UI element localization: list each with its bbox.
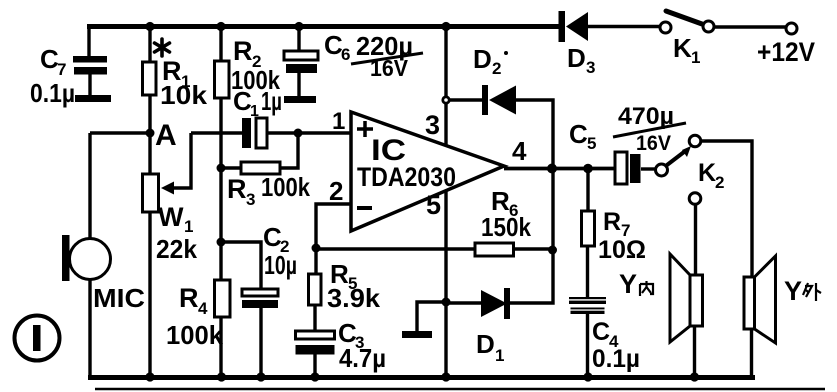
svg-text:K: K	[673, 33, 692, 63]
junction dot D1 anode node	[442, 298, 451, 307]
wire C7 top lead	[87, 27, 90, 58]
junction dot R1 at top rail	[145, 22, 154, 31]
svg-text:R: R	[603, 208, 621, 236]
svg-text:MIC: MIC	[93, 283, 145, 313]
op-amp IC TDA2030	[351, 112, 504, 231]
wire D2 anode to output column	[516, 100, 553, 168]
svg-text:2: 2	[715, 173, 724, 192]
wire K2 lower throw to internal speaker	[694, 204, 697, 275]
capacitor C4	[569, 297, 640, 373]
svg-text:16V: 16V	[370, 55, 409, 81]
junction dot C4 at rail	[583, 372, 592, 381]
wire pin 5 to ground rail	[444, 190, 447, 377]
junction dot R2 at top rail	[216, 22, 225, 31]
wire R1 top lead	[148, 27, 151, 63]
wire left column down to MIC	[88, 133, 91, 239]
junction dot feedback node	[312, 244, 321, 253]
junction dot C2 branch on bias column	[217, 238, 226, 247]
pin 4 label	[512, 136, 527, 166]
svg-text:0.1µ: 0.1µ	[592, 345, 640, 373]
junction dot output/D2 column	[547, 164, 557, 174]
svg-text:W: W	[158, 202, 184, 232]
svg-text:4: 4	[512, 136, 527, 166]
svg-text:3: 3	[425, 110, 440, 140]
capacitor C3	[296, 318, 387, 373]
microphone MIC	[62, 235, 145, 313]
resistor R3	[227, 162, 310, 209]
diode D3 in supply rail	[559, 11, 596, 77]
wire C4 bottom to ground rail	[586, 314, 589, 377]
svg-text:R: R	[233, 36, 253, 66]
wire C3 bottom to ground rail	[313, 354, 316, 377]
svg-text:6: 6	[341, 45, 350, 64]
junction dot pin5 at rail	[441, 372, 450, 381]
junction dot R4 at rail	[217, 372, 226, 381]
switch K1	[660, 11, 714, 67]
svg-text:A: A	[155, 119, 177, 152]
svg-text:5: 5	[587, 134, 596, 153]
junction dot C2 at rail	[256, 372, 265, 381]
svg-text:10Ω: 10Ω	[598, 236, 646, 264]
potentiometer W1	[143, 174, 198, 264]
wire K1 to +12V terminal	[714, 25, 786, 28]
wire C7 mid lead	[88, 73, 91, 96]
wire D1 node to ground symbol	[417, 302, 446, 331]
svg-text:2: 2	[492, 59, 501, 78]
wire R6 right to output column	[513, 247, 553, 250]
wire D1 cathode to output column	[510, 250, 553, 303]
svg-text:2: 2	[329, 176, 343, 206]
figure number 1 circled	[15, 316, 60, 361]
wire Y internal bottom to rail	[693, 326, 696, 377]
switch K2	[656, 135, 725, 204]
wire R1 bottom to node A	[148, 95, 151, 174]
svg-text:10µ: 10µ	[264, 250, 297, 280]
wire D1 anode lead	[446, 301, 481, 304]
capacitor C2	[242, 222, 297, 308]
asterisk mark above R1	[155, 39, 170, 56]
svg-text:Y: Y	[619, 269, 637, 299]
wire R7 top lead	[586, 169, 589, 211]
wire MIC bottom to ground rail	[88, 279, 91, 377]
wire W1 wiper arm	[161, 133, 191, 195]
junction dot R6 right at output column	[548, 246, 557, 255]
svg-text:5: 5	[426, 190, 441, 220]
wire D2 cathode lead	[449, 98, 483, 101]
svg-text:3: 3	[586, 58, 595, 77]
resistor R4	[166, 280, 230, 350]
wire Y external bottom to rail	[750, 329, 753, 378]
svg-text:R: R	[179, 283, 199, 313]
capacitor C5	[569, 103, 686, 184]
junction dot W1 bottom at rail	[145, 372, 154, 381]
svg-text:150k: 150k	[481, 212, 531, 242]
node A	[146, 119, 177, 152]
capacitor C7	[30, 44, 111, 108]
svg-text:22k: 22k	[156, 234, 198, 264]
pin 5 label	[426, 190, 441, 220]
pin 2 label	[329, 176, 343, 206]
wire feedback node to R6 left	[316, 247, 475, 250]
diode D2	[473, 44, 516, 115]
junction dot C1/R3/pin1	[294, 129, 303, 138]
junction dot C6 at top rail	[294, 22, 303, 31]
wire C1 right plate to pin1 node	[267, 131, 351, 134]
junction dot pin3 at top rail	[441, 22, 450, 31]
wire feedback node to R5 top	[314, 248, 317, 275]
wire rail from D3 to K1	[588, 25, 660, 28]
svg-text:0.1µ: 0.1µ	[30, 78, 75, 108]
svg-text:100k: 100k	[261, 172, 310, 202]
wire R2 top lead	[219, 27, 222, 62]
speaker Y internal	[619, 254, 703, 342]
wire R4 bottom to ground rail	[219, 317, 222, 377]
wire R2 bottom through bias column	[219, 98, 222, 280]
svg-text:1: 1	[691, 48, 700, 67]
svg-text:C: C	[592, 318, 610, 346]
wire C2 bottom to ground rail	[259, 308, 262, 377]
resistor R5	[309, 259, 381, 313]
wire wiper node to C1 left plate	[191, 131, 242, 134]
svg-text:3: 3	[246, 190, 255, 209]
svg-text:1: 1	[332, 108, 345, 135]
svg-text:Y: Y	[784, 276, 802, 306]
wire node A to left column	[90, 131, 150, 134]
wire R3 left lead to bias column	[221, 166, 241, 169]
wire op-amp output row	[504, 167, 616, 171]
svg-text:1µ: 1µ	[261, 86, 282, 116]
wire +V top rail	[87, 24, 559, 29]
node ring pin3/D2 branch	[443, 97, 449, 103]
wire output column D2 junction to R6 junction	[551, 168, 554, 250]
capacitor C1	[233, 86, 282, 148]
diode D1	[476, 288, 510, 365]
terminal +12V	[757, 23, 815, 67]
svg-text:D: D	[476, 329, 495, 359]
svg-text:100k: 100k	[166, 320, 224, 350]
svg-text:3.9k: 3.9k	[327, 283, 381, 313]
junction dot Y internal at rail	[690, 372, 699, 381]
resistor R6	[475, 186, 531, 256]
svg-text:10k: 10k	[160, 80, 208, 110]
svg-text:D: D	[567, 43, 586, 73]
svg-text:4.7µ: 4.7µ	[339, 343, 386, 373]
svg-text:+12V: +12V	[757, 37, 815, 67]
wire K2 upper throw to external speaker column	[701, 141, 752, 277]
svg-text:1: 1	[250, 103, 259, 120]
resistor R1	[143, 56, 208, 110]
wire bottom ground rail	[88, 375, 755, 380]
wire bias column to C2 top	[221, 242, 261, 290]
svg-text:C: C	[569, 119, 588, 149]
wire pin 2 to feedback node	[316, 204, 351, 248]
page rule line at bottom	[95, 388, 825, 391]
svg-text:1: 1	[495, 346, 504, 365]
svg-text:K: K	[698, 159, 716, 187]
svg-text:TDA2030: TDA2030	[357, 162, 456, 192]
wire R7 bottom to C4	[586, 246, 589, 297]
speaker Y external	[744, 256, 821, 343]
svg-text:7: 7	[57, 60, 66, 79]
svg-text:D: D	[473, 44, 492, 74]
wire pin1 node down to R3 right lead	[280, 133, 298, 168]
junction dot output/R7 column	[583, 164, 593, 174]
wire pin 3 to +V rail	[444, 27, 447, 146]
wire C6 top lead	[297, 27, 300, 54]
resistor R7	[582, 208, 647, 264]
svg-text:4: 4	[198, 299, 208, 318]
resistor R2	[215, 36, 281, 98]
pin 1 label	[332, 108, 345, 135]
wire R5 bottom to C3	[313, 305, 316, 332]
svg-text:R: R	[227, 174, 247, 204]
wire W1 bottom to ground rail	[148, 212, 151, 377]
junction dot R3 left at bias column	[217, 164, 226, 173]
ground symbol	[402, 331, 432, 338]
capacitor C6	[284, 30, 423, 103]
junction dot C3 at rail	[310, 372, 319, 381]
svg-text:16V: 16V	[636, 132, 671, 155]
pin 3 label	[425, 110, 440, 140]
wire C5 right to K2	[641, 167, 655, 170]
